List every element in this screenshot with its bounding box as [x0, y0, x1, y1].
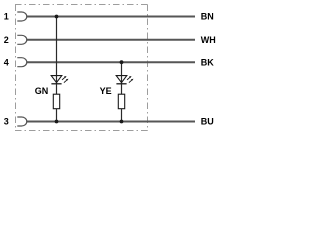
wire LED GN to resistor: [56, 84, 58, 94]
LED YE (diode symbol with light arrows): [116, 76, 133, 84]
pin 2 contact: [17, 35, 27, 44]
svg-text:BK: BK: [201, 57, 214, 67]
wire resistor to BU wire: [121, 109, 123, 122]
LED GN (diode symbol with light arrows): [51, 76, 68, 84]
device outline (dash-dot boundary): [15, 5, 148, 132]
junction on BU wire (YE branch): [120, 120, 124, 124]
wire resistor to BU wire: [56, 109, 58, 122]
svg-text:3: 3: [4, 117, 9, 127]
pin 4 contact: [17, 58, 26, 67]
svg-text:BN: BN: [201, 12, 214, 22]
wire branch GN upper (BN wire down through LED): [56, 17, 58, 84]
resistor (GN branch): [53, 94, 59, 109]
wire LED YE to resistor: [121, 84, 123, 94]
svg-text:4: 4: [4, 57, 9, 67]
pin 3 contact: [17, 117, 27, 126]
svg-text:1: 1: [4, 12, 9, 22]
svg-text:WH: WH: [201, 35, 216, 45]
junction on BU wire (GN branch): [55, 120, 59, 124]
svg-text:GN: GN: [35, 86, 49, 96]
svg-text:BU: BU: [201, 117, 214, 127]
resistor (YE branch): [118, 94, 124, 109]
junction on BN wire: [55, 15, 59, 19]
wire WH (pin 2 to WH): [26, 39, 195, 41]
svg-text:2: 2: [4, 35, 9, 45]
wire BN (pin 1 to BN): [26, 16, 195, 18]
wire BK (pin 4 to BK): [26, 61, 195, 63]
junction on BK wire: [120, 60, 124, 64]
wire branch YE upper (BK wire down through LED): [121, 62, 123, 84]
wire BU (pin 3 to BU): [26, 121, 195, 123]
svg-text:YE: YE: [100, 86, 112, 96]
pin 1 contact: [17, 12, 26, 21]
